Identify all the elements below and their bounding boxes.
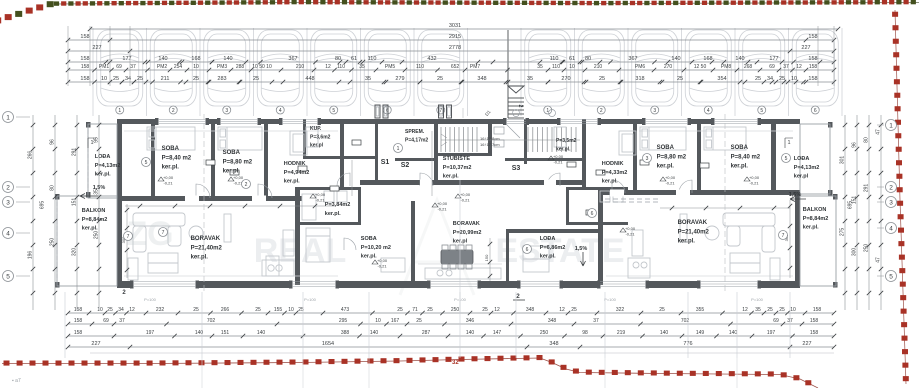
svg-text:SOBA: SOBA <box>223 150 241 156</box>
svg-text:25: 25 <box>137 76 143 82</box>
svg-text:ker.pl.: ker.pl. <box>361 254 377 260</box>
svg-text:ker.pl.: ker.pl. <box>191 255 209 261</box>
svg-text:80: 80 <box>50 185 56 191</box>
svg-text:69: 69 <box>116 64 122 70</box>
svg-text:2: 2 <box>172 108 175 114</box>
svg-text:16↑17,7cm: 16↑17,7cm <box>480 142 500 147</box>
svg-text:1654: 1654 <box>322 341 334 347</box>
svg-text:69: 69 <box>773 318 779 324</box>
svg-text:P=3,6m2: P=3,6m2 <box>310 134 331 140</box>
svg-text:10: 10 <box>791 76 797 82</box>
svg-text:4: 4 <box>889 225 893 232</box>
svg-text:SOBA: SOBA <box>162 146 180 152</box>
svg-text:-0,21: -0,21 <box>749 181 759 186</box>
svg-text:25: 25 <box>437 76 443 82</box>
svg-text:388: 388 <box>341 330 350 336</box>
svg-text:ker.pl: ker.pl <box>794 174 809 180</box>
svg-text:P=8,80 m2: P=8,80 m2 <box>657 154 687 160</box>
svg-text:448: 448 <box>305 76 314 82</box>
svg-text:270: 270 <box>561 76 570 82</box>
svg-text:32: 32 <box>452 360 459 366</box>
svg-text:155: 155 <box>274 307 283 313</box>
svg-text:10: 10 <box>569 64 575 70</box>
svg-text:35: 35 <box>537 64 543 70</box>
svg-text:+0,00: +0,00 <box>163 175 174 180</box>
svg-text:7: 7 <box>162 230 165 236</box>
svg-text:BALKON: BALKON <box>803 207 827 213</box>
svg-text:25: 25 <box>659 307 665 313</box>
svg-text:7: 7 <box>127 234 130 240</box>
svg-text:7: 7 <box>782 233 785 239</box>
svg-text:35: 35 <box>527 76 533 82</box>
svg-text:6: 6 <box>591 211 594 217</box>
svg-text:P=3,5m2: P=3,5m2 <box>556 138 577 144</box>
svg-text:LOĐA: LOĐA <box>794 156 810 162</box>
svg-text:695: 695 <box>40 201 46 210</box>
svg-text:4: 4 <box>707 108 710 114</box>
svg-text:110: 110 <box>416 64 424 70</box>
svg-text:196: 196 <box>28 251 34 260</box>
svg-text:140: 140 <box>257 330 266 336</box>
svg-text:287: 287 <box>422 330 431 336</box>
svg-text:PM8: PM8 <box>721 64 732 70</box>
svg-text:-0,21: -0,21 <box>625 232 635 237</box>
svg-text:P=6,86m2: P=6,86m2 <box>540 245 566 251</box>
svg-text:652: 652 <box>451 64 460 70</box>
svg-text:HODNIK: HODNIK <box>284 161 306 167</box>
svg-text:+0,00: +0,00 <box>625 226 636 231</box>
svg-text:P=100: P=100 <box>751 297 763 302</box>
svg-text:227: 227 <box>801 45 810 51</box>
svg-text:5: 5 <box>760 108 763 114</box>
svg-text:1: 1 <box>397 146 400 152</box>
svg-text:283: 283 <box>217 76 226 82</box>
svg-text:80: 80 <box>864 137 870 143</box>
svg-text:219: 219 <box>617 330 626 336</box>
svg-text:318: 318 <box>635 76 644 82</box>
svg-text:432: 432 <box>427 56 436 62</box>
svg-text:+0,00: +0,00 <box>315 192 326 197</box>
svg-text:ker.pl.: ker.pl. <box>803 225 819 231</box>
svg-text:4: 4 <box>279 108 282 114</box>
svg-text:346: 346 <box>466 318 475 324</box>
svg-text:ESTATE: ESTATE <box>495 232 624 270</box>
svg-text:300: 300 <box>852 248 858 257</box>
svg-text:1: 1 <box>787 140 790 146</box>
svg-text:140: 140 <box>158 56 167 62</box>
svg-text:PM5: PM5 <box>385 64 396 70</box>
svg-text:BORAVAK: BORAVAK <box>453 221 480 227</box>
svg-text:291: 291 <box>72 148 78 157</box>
svg-text:110: 110 <box>550 56 559 62</box>
svg-text:5: 5 <box>889 273 893 280</box>
svg-text:158: 158 <box>80 76 89 82</box>
svg-text:P=10,37m2: P=10,37m2 <box>443 165 472 171</box>
svg-text:96: 96 <box>50 139 56 145</box>
svg-text:12: 12 <box>559 307 565 313</box>
svg-text:P=4,13m2: P=4,13m2 <box>794 165 820 171</box>
svg-text:266: 266 <box>221 307 230 313</box>
svg-text:158: 158 <box>74 318 83 324</box>
svg-text:10: 10 <box>193 64 199 70</box>
svg-text:12: 12 <box>129 307 135 313</box>
svg-text:270: 270 <box>664 64 673 70</box>
svg-text:10 50 10: 10 50 10 <box>252 64 272 70</box>
svg-text:2: 2 <box>6 184 10 191</box>
svg-text:P=3,84m2: P=3,84m2 <box>325 202 351 208</box>
svg-text:367: 367 <box>288 56 297 62</box>
svg-text:227: 227 <box>91 341 100 347</box>
svg-text:211: 211 <box>161 76 170 82</box>
svg-text:140: 140 <box>370 330 379 336</box>
svg-text:12: 12 <box>796 64 802 70</box>
svg-text:177: 177 <box>769 56 778 62</box>
svg-text:5: 5 <box>145 160 148 166</box>
svg-text:80: 80 <box>335 56 341 62</box>
svg-text:150: 150 <box>484 254 489 261</box>
svg-text:37: 37 <box>593 318 599 324</box>
svg-text:110: 110 <box>337 64 345 70</box>
svg-text:ker.pl.: ker.pl. <box>731 164 749 170</box>
svg-text:25: 25 <box>416 318 422 324</box>
svg-text:140: 140 <box>671 56 680 62</box>
svg-text:25: 25 <box>113 76 119 82</box>
svg-text:275: 275 <box>840 228 846 237</box>
svg-text:-0,21: -0,21 <box>377 264 387 269</box>
svg-text:P=8,40 m2: P=8,40 m2 <box>731 154 761 160</box>
svg-text:PM2: PM2 <box>157 64 168 70</box>
svg-text:158: 158 <box>74 330 83 336</box>
svg-text:158: 158 <box>810 330 819 336</box>
svg-text:5: 5 <box>332 108 335 114</box>
svg-text:158: 158 <box>81 64 90 70</box>
svg-text:168: 168 <box>703 56 712 62</box>
svg-text:P=8,84m2: P=8,84m2 <box>82 217 108 223</box>
svg-text:227: 227 <box>92 45 101 51</box>
svg-text:367: 367 <box>628 56 637 62</box>
svg-text:-0,21: -0,21 <box>553 160 563 165</box>
svg-text:P=100: P=100 <box>304 297 316 302</box>
svg-text:ker.pl.: ker.pl. <box>443 174 459 180</box>
svg-text:250: 250 <box>50 238 56 247</box>
svg-text:ker.pl.: ker.pl. <box>602 179 618 185</box>
svg-text:2: 2 <box>245 182 248 188</box>
svg-text:2915: 2915 <box>449 34 461 40</box>
svg-text:P=4,13m2: P=4,13m2 <box>95 163 121 169</box>
svg-text:71: 71 <box>412 307 418 313</box>
svg-text:1,5%: 1,5% <box>575 246 588 252</box>
svg-text:P=20,99m2: P=20,99m2 <box>453 230 482 236</box>
svg-text:227: 227 <box>802 341 811 347</box>
svg-text:149: 149 <box>696 330 705 336</box>
svg-text:250: 250 <box>94 231 100 240</box>
svg-text:348: 348 <box>548 318 557 324</box>
svg-text:301: 301 <box>840 156 846 165</box>
svg-text:69: 69 <box>769 64 775 70</box>
svg-text:37: 37 <box>119 318 125 324</box>
svg-text:+0,00: +0,00 <box>553 154 564 159</box>
svg-text:25: 25 <box>193 76 199 82</box>
svg-text:12 50: 12 50 <box>694 64 707 70</box>
svg-text:S3: S3 <box>512 165 521 172</box>
svg-text:25: 25 <box>571 307 577 313</box>
svg-text:695: 695 <box>848 201 854 210</box>
svg-text:151: 151 <box>221 330 230 336</box>
svg-text:SOBA: SOBA <box>657 145 675 151</box>
svg-text:288: 288 <box>236 64 245 70</box>
svg-text:254: 254 <box>174 64 183 70</box>
svg-text:-0,21: -0,21 <box>665 181 675 186</box>
svg-text:BORAVAK: BORAVAK <box>191 236 221 242</box>
svg-text:10: 10 <box>375 318 381 324</box>
svg-text:25: 25 <box>253 76 259 82</box>
svg-text:210: 210 <box>296 64 305 70</box>
svg-text:2: 2 <box>889 184 893 191</box>
svg-text:348: 348 <box>477 76 486 82</box>
svg-text:+0,00: +0,00 <box>437 201 448 206</box>
svg-text:P=10,20 m2: P=10,20 m2 <box>361 245 391 251</box>
svg-text:1: 1 <box>889 122 893 129</box>
svg-text:SOBA: SOBA <box>361 236 377 242</box>
svg-text:25: 25 <box>482 307 488 313</box>
svg-text:25: 25 <box>677 76 683 82</box>
svg-text:ker.pl.: ker.pl. <box>678 239 696 245</box>
svg-text:P=8,84m2: P=8,84m2 <box>803 216 829 222</box>
svg-text:10: 10 <box>790 307 796 313</box>
svg-text:250: 250 <box>451 307 460 313</box>
svg-text:110: 110 <box>552 64 560 70</box>
svg-text:P=4,17m2: P=4,17m2 <box>405 137 428 143</box>
svg-text:197: 197 <box>767 330 776 336</box>
svg-text:ker.pl.: ker.pl. <box>556 146 571 152</box>
svg-text:140: 140 <box>223 56 232 62</box>
svg-text:ker.pl.: ker.pl. <box>657 164 675 170</box>
svg-text:3: 3 <box>653 108 656 114</box>
svg-text:10: 10 <box>288 307 294 313</box>
svg-text:P=100: P=100 <box>144 297 156 302</box>
svg-text:158: 158 <box>813 307 822 313</box>
svg-text:151: 151 <box>72 198 78 207</box>
svg-text:140: 140 <box>735 56 744 62</box>
svg-text:ker.pl.: ker.pl. <box>162 165 180 171</box>
svg-text:ker.pl.: ker.pl. <box>540 254 556 260</box>
svg-text:+0,00: +0,00 <box>749 175 760 180</box>
svg-text:P=4,94m2: P=4,94m2 <box>284 170 310 176</box>
svg-text:25: 25 <box>779 76 785 82</box>
svg-text:158: 158 <box>810 318 819 324</box>
svg-text:61: 61 <box>569 56 575 62</box>
svg-text:SOBA: SOBA <box>731 145 749 151</box>
svg-text:35: 35 <box>755 307 761 313</box>
svg-text:3031: 3031 <box>449 23 461 29</box>
svg-text:147: 147 <box>493 330 502 336</box>
svg-text:+0,00: +0,00 <box>377 258 388 263</box>
svg-text:SPREM.: SPREM. <box>405 129 425 135</box>
svg-text:25: 25 <box>427 307 433 313</box>
svg-text:P=4,33m2: P=4,33m2 <box>602 170 628 176</box>
svg-text:ker.pl.: ker.pl. <box>325 211 341 217</box>
svg-text:HODNIK: HODNIK <box>602 161 624 167</box>
svg-text:1: 1 <box>6 114 10 121</box>
svg-text:158: 158 <box>809 64 818 70</box>
svg-text:1,5%: 1,5% <box>789 192 802 198</box>
svg-text:95: 95 <box>94 137 100 143</box>
svg-text:PM1: PM1 <box>99 64 110 70</box>
svg-text:80: 80 <box>585 56 591 62</box>
svg-text:47: 47 <box>876 129 882 135</box>
svg-text:35: 35 <box>365 76 371 82</box>
svg-text:250: 250 <box>864 244 870 253</box>
svg-text:25: 25 <box>755 76 761 82</box>
svg-text:3: 3 <box>6 199 10 206</box>
svg-text:S2: S2 <box>401 162 410 169</box>
svg-text:3: 3 <box>889 199 893 206</box>
svg-text:354: 354 <box>717 76 726 82</box>
svg-text:158: 158 <box>808 76 817 82</box>
svg-text:279: 279 <box>395 76 404 82</box>
svg-text:PM3: PM3 <box>217 64 228 70</box>
svg-text:158: 158 <box>808 34 817 40</box>
svg-text:35: 35 <box>94 189 100 195</box>
svg-text:168: 168 <box>191 56 200 62</box>
svg-text:167: 167 <box>391 318 400 324</box>
svg-text:-0,21: -0,21 <box>437 207 447 212</box>
svg-text:-0,21: -0,21 <box>460 198 470 203</box>
svg-text:348: 348 <box>526 307 535 313</box>
svg-text:35: 35 <box>359 64 365 70</box>
svg-text:16↑17,8cm: 16↑17,8cm <box>480 136 500 141</box>
svg-text:5: 5 <box>785 156 788 162</box>
svg-text:PM7: PM7 <box>470 64 481 70</box>
svg-text:355: 355 <box>696 307 705 313</box>
svg-text:158: 158 <box>808 56 817 62</box>
svg-text:210: 210 <box>594 64 603 70</box>
svg-text:P=8,40 m2: P=8,40 m2 <box>162 155 192 161</box>
svg-text:10: 10 <box>97 307 103 313</box>
svg-text:69: 69 <box>103 318 109 324</box>
svg-text:ker.pl.: ker.pl. <box>82 226 98 232</box>
svg-text:158: 158 <box>80 34 89 40</box>
svg-text:KUP.: KUP. <box>310 126 322 132</box>
svg-text:232: 232 <box>156 307 165 313</box>
svg-text:158: 158 <box>74 307 83 313</box>
svg-text:25: 25 <box>107 307 113 313</box>
svg-text:98: 98 <box>582 330 588 336</box>
svg-text:ker.pl: ker.pl <box>310 143 324 149</box>
svg-text:12: 12 <box>742 307 748 313</box>
svg-text:25: 25 <box>193 307 199 313</box>
svg-text:37: 37 <box>130 64 136 70</box>
svg-text:47: 47 <box>876 257 882 263</box>
svg-text:96: 96 <box>852 142 858 148</box>
svg-text:6: 6 <box>526 247 529 253</box>
svg-text:25: 25 <box>255 307 261 313</box>
svg-text:37: 37 <box>783 64 789 70</box>
svg-text:5: 5 <box>6 273 10 280</box>
svg-text:34: 34 <box>118 307 124 313</box>
svg-text:320: 320 <box>72 248 78 257</box>
svg-text:140: 140 <box>660 330 669 336</box>
svg-text:+0,00: +0,00 <box>233 175 244 180</box>
svg-text:LOĐA: LOĐA <box>540 236 556 242</box>
svg-text:197: 197 <box>146 330 155 336</box>
svg-text:25: 25 <box>599 76 605 82</box>
svg-text:140: 140 <box>466 330 475 336</box>
svg-text:12: 12 <box>494 307 500 313</box>
svg-text:P=100: P=100 <box>604 297 616 302</box>
svg-text:3: 3 <box>646 156 649 162</box>
svg-text:2: 2 <box>600 108 603 114</box>
svg-text:268: 268 <box>744 64 753 70</box>
svg-text:12: 12 <box>325 64 331 70</box>
svg-text:34: 34 <box>767 76 773 82</box>
svg-text:+0,00: +0,00 <box>665 175 676 180</box>
svg-text:250: 250 <box>540 330 549 336</box>
svg-text:▪ a7: ▪ a7 <box>12 378 21 384</box>
svg-text:25: 25 <box>779 307 785 313</box>
svg-text:25: 25 <box>767 307 773 313</box>
svg-text:266: 266 <box>28 151 34 160</box>
svg-text:2: 2 <box>517 105 523 108</box>
svg-text:348: 348 <box>549 341 558 347</box>
svg-text:110: 110 <box>368 56 377 62</box>
svg-text:ker.pl.: ker.pl. <box>223 169 241 175</box>
svg-text:STUBIŠTE: STUBIŠTE <box>443 154 471 162</box>
svg-text:10: 10 <box>101 76 107 82</box>
svg-text:140: 140 <box>729 330 738 336</box>
svg-text:ker.pl.: ker.pl. <box>284 179 300 185</box>
svg-text:158: 158 <box>80 56 89 62</box>
svg-text:PM6: PM6 <box>635 64 646 70</box>
svg-text:-0,21: -0,21 <box>163 181 173 186</box>
svg-text:LOĐA: LOĐA <box>95 154 111 160</box>
svg-text:291: 291 <box>864 184 870 193</box>
svg-text:61: 61 <box>351 56 357 62</box>
svg-text:702: 702 <box>207 318 216 324</box>
svg-text:25: 25 <box>397 307 403 313</box>
svg-text:S1: S1 <box>381 159 390 166</box>
svg-text:P=21,40m2: P=21,40m2 <box>191 245 223 251</box>
svg-text:2778: 2778 <box>449 45 461 51</box>
svg-text:322: 322 <box>616 307 625 313</box>
svg-text:6: 6 <box>814 108 817 114</box>
svg-text:BALKON: BALKON <box>82 208 106 214</box>
svg-text:473: 473 <box>341 307 350 313</box>
svg-text:BORAVAK: BORAVAK <box>678 220 708 226</box>
svg-text:P=8,80 m2: P=8,80 m2 <box>223 159 253 165</box>
svg-text:1: 1 <box>118 108 121 114</box>
svg-text:P=21,40m2: P=21,40m2 <box>678 229 710 235</box>
svg-text:4: 4 <box>6 230 10 237</box>
svg-text:295: 295 <box>339 318 348 324</box>
svg-text:3: 3 <box>225 108 228 114</box>
svg-text:+0,00: +0,00 <box>460 192 471 197</box>
svg-text:P=100: P=100 <box>454 297 466 302</box>
